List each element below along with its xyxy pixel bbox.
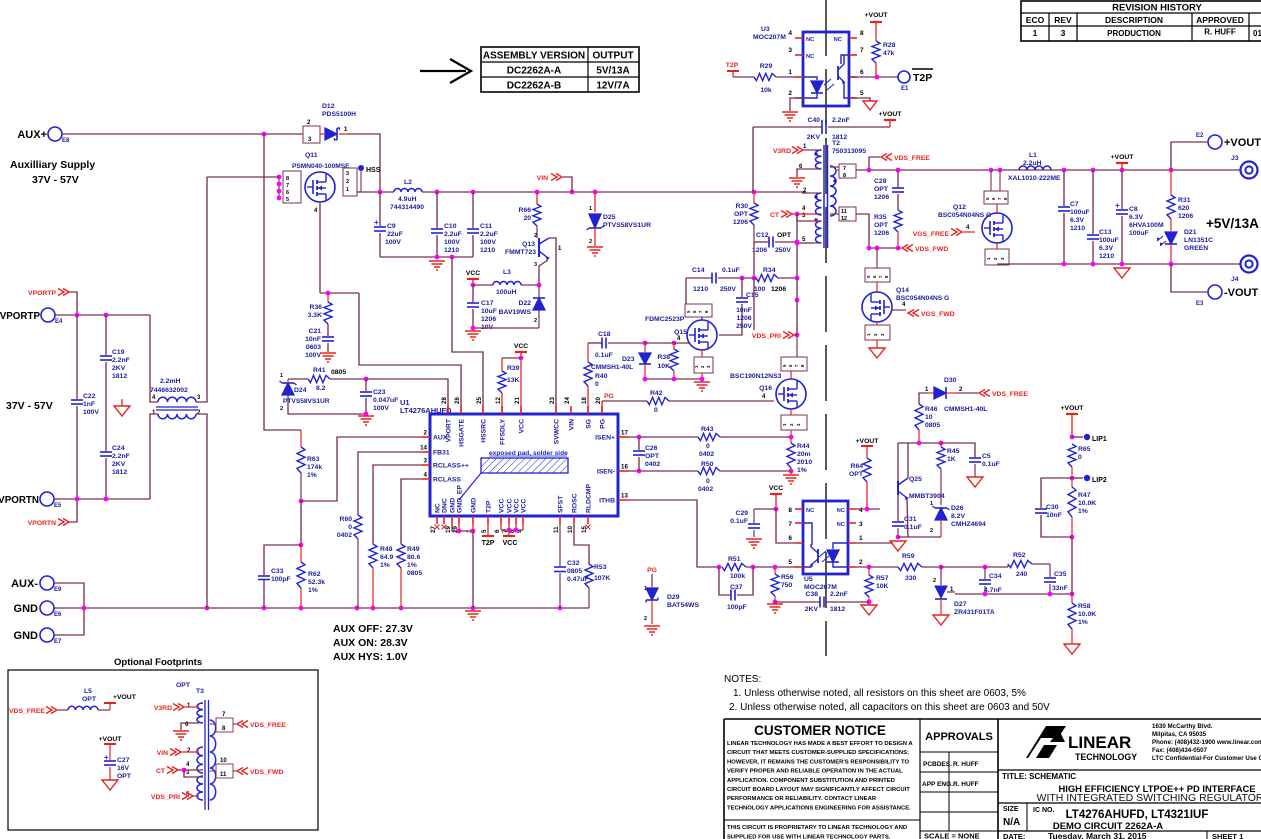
svg-text:0.1uF: 0.1uF bbox=[722, 267, 740, 274]
wire secondary rail bbox=[869, 169, 1240, 171]
junction gnd rail bbox=[399, 606, 404, 611]
svg-text:28: 28 bbox=[441, 397, 448, 404]
svg-text:VPORT: VPORT bbox=[446, 418, 453, 442]
svg-text:R56: R56 bbox=[781, 574, 794, 581]
svg-text:1210: 1210 bbox=[444, 247, 459, 254]
svg-text:10uF: 10uF bbox=[481, 308, 497, 315]
svg-text:R47: R47 bbox=[1078, 492, 1091, 499]
svg-text:13: 13 bbox=[621, 493, 628, 500]
svg-text:D12: D12 bbox=[322, 103, 335, 110]
resistor R35 bbox=[894, 210, 902, 232]
junction gnd rail bbox=[471, 606, 476, 611]
resistor R46 bbox=[919, 393, 928, 404]
svg-text:VCC: VCC bbox=[519, 419, 526, 433]
terminal E5 VPORTN bbox=[40, 492, 54, 506]
svg-text:DC2262A-A: DC2262A-A bbox=[507, 66, 561, 77]
svg-text:1: 1 bbox=[280, 373, 283, 379]
svg-text:VCC: VCC bbox=[499, 499, 506, 513]
svg-text:R49: R49 bbox=[407, 546, 420, 553]
svg-text:R39: R39 bbox=[507, 365, 520, 372]
svg-text:Auxilliary Supply: Auxilliary Supply bbox=[10, 159, 95, 171]
svg-text:100V: 100V bbox=[444, 239, 460, 246]
svg-text:IC NO.: IC NO. bbox=[1033, 807, 1054, 814]
svg-text:4: 4 bbox=[859, 507, 863, 514]
wire C14 to Q15 drain bbox=[685, 278, 687, 304]
svg-text:D21: D21 bbox=[1184, 229, 1197, 236]
wire Q13 collector to SVWCC bbox=[549, 238, 556, 414]
assembly version table bbox=[481, 47, 639, 92]
node HSS bbox=[358, 165, 364, 171]
wire D12 out bbox=[348, 134, 380, 192]
wire VDS_PRI riser bbox=[796, 335, 798, 357]
svg-text:PTVS58VS1UR: PTVS58VS1UR bbox=[283, 398, 330, 405]
assembly table arrow bbox=[420, 70, 466, 72]
svg-text:C30: C30 bbox=[1046, 504, 1059, 511]
svg-text:10.0K: 10.0K bbox=[1078, 500, 1096, 507]
svg-text:4: 4 bbox=[424, 472, 428, 479]
svg-text:R34: R34 bbox=[763, 267, 776, 274]
capacitor C34 bbox=[984, 567, 986, 579]
svg-text:PG: PG bbox=[647, 567, 657, 574]
svg-text:OPT: OPT bbox=[777, 232, 792, 239]
svg-text:100V: 100V bbox=[480, 239, 496, 246]
resistor R59 bbox=[898, 563, 922, 570]
svg-text:240: 240 bbox=[1016, 571, 1028, 578]
svg-text:E7: E7 bbox=[54, 639, 62, 645]
svg-text:PDS5100H: PDS5100H bbox=[322, 111, 356, 118]
junction secondary rail bbox=[1091, 168, 1096, 173]
svg-text:R64: R64 bbox=[851, 463, 864, 470]
ground T3 pin6 bbox=[173, 730, 189, 732]
junction VIN rail bbox=[752, 190, 757, 195]
junction gnd rail bbox=[558, 606, 563, 611]
svg-text:1%: 1% bbox=[797, 467, 807, 474]
svg-text:2KV: 2KV bbox=[807, 134, 821, 141]
svg-text:D27: D27 bbox=[954, 601, 967, 608]
svg-text:1: 1 bbox=[859, 535, 863, 542]
svg-text:100V: 100V bbox=[83, 409, 99, 416]
ground R58 triangle bbox=[1064, 644, 1080, 654]
svg-text:PRODUCTION: PRODUCTION bbox=[1107, 29, 1161, 38]
capacitor C9 bbox=[379, 192, 381, 226]
wire VPORTN net bbox=[54, 498, 150, 500]
wire VPORT net bbox=[366, 379, 448, 414]
svg-text:C17: C17 bbox=[481, 300, 494, 307]
svg-text:SHEET 1: SHEET 1 bbox=[1212, 832, 1243, 839]
wire VPORTP label bbox=[69, 292, 77, 315]
T2 secondary pin box 11-12 bbox=[839, 207, 856, 221]
svg-text:8: 8 bbox=[286, 176, 289, 182]
resistor R62 bbox=[300, 545, 302, 562]
svg-text:R63: R63 bbox=[307, 456, 320, 463]
wire VDS_PRI stub bbox=[753, 278, 755, 330]
svg-text:L1: L1 bbox=[1029, 152, 1037, 159]
svg-text:20: 20 bbox=[523, 215, 531, 222]
svg-text:C14: C14 bbox=[692, 267, 705, 274]
svg-text:APPLICATION. COMPONENT SUBSTI: APPLICATION. COMPONENT SUBSTITUTION AND … bbox=[727, 778, 895, 784]
svg-text:C24: C24 bbox=[112, 445, 125, 452]
LED D21 bbox=[1165, 232, 1177, 244]
svg-text:4.9uH: 4.9uH bbox=[398, 196, 417, 203]
svg-text:VDS_PRI: VDS_PRI bbox=[151, 794, 180, 801]
svg-text:CT: CT bbox=[770, 212, 780, 219]
wire T2 pin6 gnd bbox=[797, 169, 813, 177]
svg-text:Tuesday, March 31, 2015: Tuesday, March 31, 2015 bbox=[1048, 831, 1147, 839]
wire AUX+ rail bbox=[62, 133, 303, 135]
ground VCC cluster bbox=[465, 330, 481, 332]
svg-text:BAT54WS: BAT54WS bbox=[667, 602, 699, 609]
svg-text:3: 3 bbox=[788, 47, 792, 54]
wire gate node bbox=[320, 292, 359, 294]
svg-text:26: 26 bbox=[454, 397, 461, 404]
svg-text:T3: T3 bbox=[196, 688, 204, 695]
svg-text:2: 2 bbox=[788, 90, 792, 97]
wire AUX+ drop to R63 bbox=[264, 134, 301, 430]
junction VIN rail bbox=[535, 190, 540, 195]
svg-text:BSC190N12NS3: BSC190N12NS3 bbox=[730, 373, 782, 380]
svg-text:NC: NC bbox=[806, 508, 815, 514]
svg-text:R36: R36 bbox=[310, 304, 323, 311]
svg-text:T2P: T2P bbox=[726, 62, 739, 69]
svg-text:HOWEVER, IT REMAINS THE CUSTOM: HOWEVER, IT REMAINS THE CUSTOMER'S RESPO… bbox=[727, 759, 909, 765]
wire FB31 net bbox=[358, 452, 422, 515]
svg-text:R. HUFF: R. HUFF bbox=[1204, 28, 1236, 37]
junction gnd rail bbox=[82, 606, 87, 611]
svg-text:1%: 1% bbox=[1078, 508, 1088, 515]
svg-text:13K: 13K bbox=[507, 377, 520, 384]
capacitor C14 bbox=[686, 277, 712, 279]
terminal E8 AUX+ bbox=[48, 127, 62, 141]
svg-text:16V: 16V bbox=[117, 765, 130, 772]
resistor R39 bbox=[502, 357, 521, 359]
capacitor C18 bbox=[588, 342, 602, 344]
svg-text:R62: R62 bbox=[308, 571, 321, 578]
power +VOUT rail bbox=[1116, 162, 1128, 164]
svg-text:CMHZ4694: CMHZ4694 bbox=[951, 521, 986, 528]
svg-text:6.3V: 6.3V bbox=[1129, 214, 1143, 221]
svg-text:NOTES:: NOTES: bbox=[724, 674, 761, 685]
svg-text:174k: 174k bbox=[307, 464, 322, 471]
wire HSGATE riser bbox=[359, 293, 461, 414]
svg-text:U3: U3 bbox=[761, 26, 770, 33]
U1 GND pins tie bbox=[452, 524, 473, 531]
capacitor C13 bbox=[1092, 170, 1094, 234]
wire VPORTP net bbox=[55, 314, 150, 316]
svg-text:11: 11 bbox=[553, 526, 560, 533]
wire input cap return bbox=[380, 256, 473, 258]
resistor R48 bbox=[369, 544, 377, 568]
svg-text:OPT: OPT bbox=[874, 186, 889, 193]
svg-text:AUX HYS: 1.0V: AUX HYS: 1.0V bbox=[333, 651, 408, 663]
svg-text:10k: 10k bbox=[760, 87, 772, 94]
svg-text:1206: 1206 bbox=[874, 194, 889, 201]
svg-text:100pF: 100pF bbox=[727, 604, 747, 611]
svg-text:VCC: VCC bbox=[769, 485, 783, 492]
svg-text:2: 2 bbox=[933, 578, 936, 584]
svg-text:RCLASS++: RCLASS++ bbox=[433, 463, 469, 470]
svg-text:R51: R51 bbox=[728, 556, 741, 563]
svg-text:3: 3 bbox=[424, 458, 428, 465]
resistor R58 bbox=[1071, 594, 1073, 603]
ground Q15 bbox=[694, 381, 710, 383]
svg-text:E2: E2 bbox=[1196, 133, 1204, 139]
wire RCLASS++ net bbox=[373, 465, 422, 544]
wire U3 pin5 gnd bbox=[849, 98, 870, 101]
svg-text:C9: C9 bbox=[387, 223, 396, 230]
diode D25 bbox=[594, 192, 596, 212]
resistor R38 bbox=[672, 341, 677, 346]
svg-text:1812: 1812 bbox=[830, 606, 845, 613]
svg-text:V3RD: V3RD bbox=[154, 705, 172, 712]
svg-text:250V: 250V bbox=[720, 286, 736, 293]
svg-text:NC: NC bbox=[435, 503, 442, 513]
svg-text:E8: E8 bbox=[62, 138, 70, 144]
svg-text:C29: C29 bbox=[736, 510, 749, 517]
svg-text:TECHNOLOGY APPLICATIONS ENGINE: TECHNOLOGY APPLICATIONS ENGINEERING FOR … bbox=[727, 805, 911, 811]
jack J3 bbox=[1241, 162, 1258, 179]
svg-text:100V: 100V bbox=[373, 405, 389, 412]
svg-text:SIZE: SIZE bbox=[1003, 806, 1019, 813]
terminal E3 -VOUT bbox=[1171, 264, 1207, 292]
svg-text:NC: NC bbox=[834, 37, 843, 43]
svg-text:R38: R38 bbox=[658, 354, 671, 361]
svg-text:RLDCMP: RLDCMP bbox=[586, 483, 593, 513]
svg-text:2KV: 2KV bbox=[112, 461, 126, 468]
svg-text:REV: REV bbox=[1054, 15, 1072, 25]
resistor R28 bbox=[870, 21, 882, 23]
svg-text:Q25: Q25 bbox=[909, 476, 922, 483]
svg-text:21: 21 bbox=[514, 397, 521, 404]
svg-text:NC: NC bbox=[806, 37, 815, 43]
svg-text:ZR431F01TA: ZR431F01TA bbox=[954, 609, 995, 616]
wire Q15 source row bbox=[645, 378, 702, 380]
junction return rail bbox=[1120, 262, 1125, 267]
wire Q25 emitter row bbox=[898, 536, 941, 538]
svg-text:Q14: Q14 bbox=[896, 287, 909, 294]
transistor Q13 bbox=[536, 226, 538, 238]
junction gnd rail bbox=[371, 606, 376, 611]
svg-text:R58: R58 bbox=[1078, 603, 1091, 610]
resistor R57 bbox=[868, 567, 870, 575]
svg-text:620: 620 bbox=[1178, 205, 1190, 212]
wire HSSRC riser bbox=[452, 257, 483, 414]
resistor R29 bbox=[733, 76, 754, 78]
svg-text:CIRCUIT BOARD LAYOUT MAY SIGNI: CIRCUIT BOARD LAYOUT MAY SIGNIFICANTLY A… bbox=[727, 787, 910, 793]
svg-text:C22: C22 bbox=[83, 393, 96, 400]
svg-text:VIN: VIN bbox=[157, 750, 168, 757]
svg-text:VERIFY PROPER AND RELIABLE OPE: VERIFY PROPER AND RELIABLE OPERATION IN … bbox=[727, 769, 903, 775]
svg-text:OUTPUT: OUTPUT bbox=[592, 51, 633, 62]
capacitor C17 bbox=[472, 285, 474, 302]
svg-text:2.2uF: 2.2uF bbox=[480, 231, 498, 238]
svg-text:+: + bbox=[1115, 201, 1120, 210]
svg-text:1: 1 bbox=[589, 206, 592, 212]
svg-text:DNC: DNC bbox=[442, 498, 449, 513]
svg-text:NC: NC bbox=[837, 508, 846, 514]
svg-text:C15: C15 bbox=[746, 292, 759, 299]
svg-text:C5: C5 bbox=[982, 453, 991, 460]
svg-text:ROSC: ROSC bbox=[572, 493, 579, 513]
svg-text:0805: 0805 bbox=[407, 570, 422, 577]
svg-text:20m: 20m bbox=[797, 451, 811, 458]
capacitor C28 bbox=[897, 170, 899, 187]
capacitor C12 bbox=[754, 241, 769, 243]
resistor R49 bbox=[397, 544, 405, 568]
net label VDS_FREE D30 bbox=[979, 390, 990, 397]
node LIP1 bbox=[1072, 436, 1083, 438]
transistor Q25 bbox=[897, 481, 899, 495]
wire VDS_FWD row bbox=[856, 214, 898, 248]
svg-text:1%: 1% bbox=[380, 562, 390, 569]
svg-text:OPT: OPT bbox=[849, 471, 864, 478]
svg-text:100uF: 100uF bbox=[1099, 237, 1119, 244]
svg-text:100k: 100k bbox=[730, 573, 745, 580]
resistor R50 bbox=[698, 467, 720, 474]
svg-text:V3RD: V3RD bbox=[773, 148, 791, 155]
svg-text:100pF: 100pF bbox=[271, 576, 291, 583]
svg-text:R35: R35 bbox=[874, 214, 887, 221]
svg-text:J4: J4 bbox=[1231, 276, 1239, 283]
svg-text:DESCRIPTION: DESCRIPTION bbox=[1105, 15, 1163, 25]
svg-text:33nF: 33nF bbox=[1052, 585, 1068, 592]
svg-text:MOC207M: MOC207M bbox=[753, 34, 786, 41]
terminal E4 VPORTP bbox=[41, 308, 55, 322]
ground C5 triangle bbox=[967, 477, 983, 487]
inductor L3 bbox=[493, 282, 521, 286]
wire comp row bbox=[941, 566, 1008, 568]
wire E7 to gnd rail bbox=[54, 608, 84, 635]
svg-text:2: 2 bbox=[424, 430, 428, 437]
ground T2 pin6 bbox=[789, 177, 805, 179]
svg-text:100uF: 100uF bbox=[1070, 209, 1090, 216]
wire Q11 gate down bbox=[319, 202, 321, 293]
svg-text:CIRCUIT THAT MEETS CUSTOMER-SU: CIRCUIT THAT MEETS CUSTOMER-SUPPLIED SPE… bbox=[727, 750, 909, 756]
svg-text:3: 3 bbox=[1061, 28, 1066, 38]
terminal E2 +VOUT bbox=[1171, 142, 1207, 170]
svg-text:LINEAR: LINEAR bbox=[1068, 733, 1131, 752]
transistor Q14 bbox=[876, 248, 878, 268]
junction VIN rail bbox=[471, 190, 476, 195]
svg-text:OPT: OPT bbox=[82, 696, 97, 703]
svg-text:R48: R48 bbox=[380, 546, 393, 553]
svg-text:MOC207M: MOC207M bbox=[804, 584, 837, 591]
power +VOUT C40 bbox=[889, 121, 891, 127]
svg-text:37V - 57V: 37V - 57V bbox=[32, 174, 79, 186]
capacitor C5 bbox=[941, 443, 975, 457]
wire VCC to U5 pin6 bbox=[776, 509, 795, 543]
resistor R43 bbox=[698, 433, 720, 440]
svg-text:47k: 47k bbox=[883, 50, 895, 57]
svg-text:ISEN-: ISEN- bbox=[597, 469, 615, 476]
svg-text:+VOUT: +VOUT bbox=[99, 736, 123, 743]
ground C29 bbox=[746, 538, 762, 540]
svg-text:0805: 0805 bbox=[331, 369, 346, 376]
svg-text:1210: 1210 bbox=[480, 247, 495, 254]
svg-text:R30: R30 bbox=[736, 203, 749, 210]
wire L4 pin2 down to rail bbox=[196, 414, 207, 608]
svg-text:T2: T2 bbox=[832, 140, 840, 147]
svg-text:10.0K: 10.0K bbox=[1078, 611, 1096, 618]
ground R56 bbox=[767, 603, 783, 605]
svg-text:5: 5 bbox=[788, 559, 792, 566]
wire ITHB net bbox=[628, 500, 719, 567]
svg-text:11: 11 bbox=[220, 772, 227, 778]
ground U3 pin5 triangle bbox=[863, 101, 877, 110]
svg-text:1210: 1210 bbox=[693, 286, 708, 293]
svg-text:80.6: 80.6 bbox=[407, 554, 420, 561]
svg-text:NC: NC bbox=[837, 522, 846, 528]
svg-text:744314490: 744314490 bbox=[390, 204, 424, 211]
svg-text:250V: 250V bbox=[775, 247, 791, 254]
svg-text:5: 5 bbox=[481, 529, 488, 533]
resistor R42 bbox=[602, 400, 647, 402]
svg-text:R59: R59 bbox=[902, 553, 915, 560]
svg-text:2.2uF: 2.2uF bbox=[444, 231, 462, 238]
capacitor C32 on SFST bbox=[559, 524, 561, 566]
svg-text:T2P: T2P bbox=[486, 500, 493, 513]
svg-text:ITHB: ITHB bbox=[599, 498, 615, 505]
svg-text:0: 0 bbox=[706, 443, 710, 450]
resistor R63 bbox=[300, 430, 302, 447]
svg-text:1206: 1206 bbox=[736, 315, 751, 322]
svg-text:FFSDLY: FFSDLY bbox=[500, 419, 507, 445]
svg-text:E3: E3 bbox=[1196, 301, 1204, 307]
svg-text:7: 7 bbox=[788, 521, 792, 528]
svg-text:C31: C31 bbox=[904, 516, 917, 523]
svg-text:8: 8 bbox=[860, 30, 864, 37]
svg-text:0: 0 bbox=[654, 407, 658, 414]
wire CT jog to T2 pin 3 bbox=[797, 214, 812, 221]
Q11 right pin box bbox=[343, 168, 357, 196]
ground R44 bbox=[783, 474, 799, 476]
wire U5 pin1 gnd bbox=[856, 542, 893, 544]
svg-text:LT4276AHUFD: LT4276AHUFD bbox=[400, 406, 452, 415]
svg-text:Phone: (408)432-1900 www.line: Phone: (408)432-1900 www.linear.com bbox=[1152, 739, 1261, 746]
wire feedback row bbox=[955, 593, 1072, 595]
resistor R65 bbox=[1068, 444, 1076, 467]
diode D22 bbox=[538, 285, 540, 297]
net label VDS_FWD bbox=[898, 247, 901, 249]
svg-text:0402: 0402 bbox=[698, 486, 713, 493]
svg-text:64.9: 64.9 bbox=[380, 554, 393, 561]
svg-text:0: 0 bbox=[595, 381, 599, 388]
resistor R34 bbox=[754, 277, 756, 279]
svg-text:VIN: VIN bbox=[537, 175, 548, 182]
svg-text:14: 14 bbox=[420, 445, 427, 452]
wire T3 pin6 gnd bbox=[181, 723, 199, 730]
svg-text:3: 3 bbox=[534, 262, 537, 268]
T3 pins 10-11 box bbox=[216, 764, 233, 778]
resistor R51 bbox=[722, 563, 746, 570]
svg-text:E1: E1 bbox=[901, 86, 909, 92]
svg-text:250V: 250V bbox=[736, 323, 752, 330]
svg-text:C23: C23 bbox=[373, 389, 386, 396]
resistor R47 bbox=[1071, 478, 1073, 487]
svg-text:C34: C34 bbox=[989, 573, 1002, 580]
wire Q25 base column bbox=[897, 443, 899, 521]
svg-text:C33: C33 bbox=[271, 568, 284, 575]
ground C31 triangle bbox=[890, 541, 906, 551]
svg-text:0.1uF: 0.1uF bbox=[595, 352, 613, 359]
junction gnd rail bbox=[205, 606, 210, 611]
svg-text:1%: 1% bbox=[308, 587, 318, 594]
resistor R52 bbox=[1008, 560, 1032, 567]
svg-text:ECO: ECO bbox=[1026, 15, 1045, 25]
svg-text:0.1uF: 0.1uF bbox=[730, 518, 748, 525]
svg-text:R43: R43 bbox=[701, 426, 714, 433]
svg-text:1210: 1210 bbox=[1099, 253, 1114, 260]
svg-text:D30: D30 bbox=[944, 377, 957, 384]
